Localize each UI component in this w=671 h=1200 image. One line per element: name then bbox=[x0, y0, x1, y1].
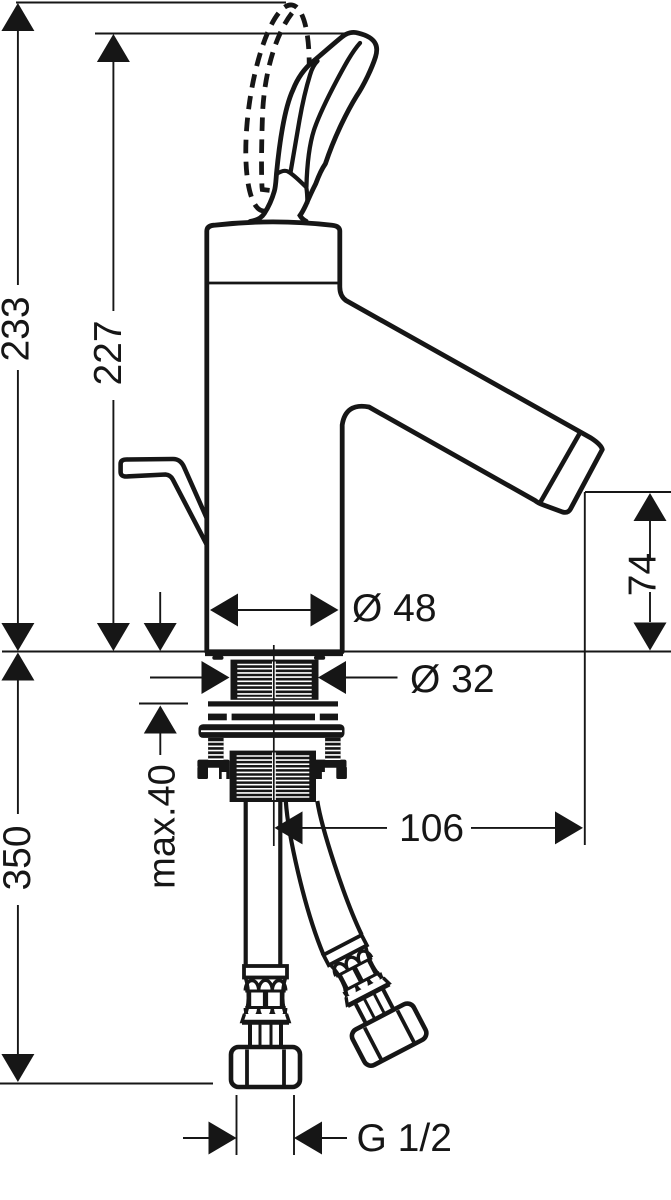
svg-text:Ø 32: Ø 32 bbox=[410, 658, 495, 701]
svg-text:74: 74 bbox=[622, 553, 665, 596]
svg-text:max.40: max.40 bbox=[141, 764, 183, 889]
svg-text:350: 350 bbox=[0, 825, 39, 890]
svg-text:G 1/2: G 1/2 bbox=[357, 1117, 452, 1160]
svg-text:Ø 48: Ø 48 bbox=[352, 587, 437, 630]
svg-text:227: 227 bbox=[87, 320, 130, 385]
svg-text:233: 233 bbox=[0, 296, 38, 361]
svg-text:106: 106 bbox=[399, 807, 464, 850]
